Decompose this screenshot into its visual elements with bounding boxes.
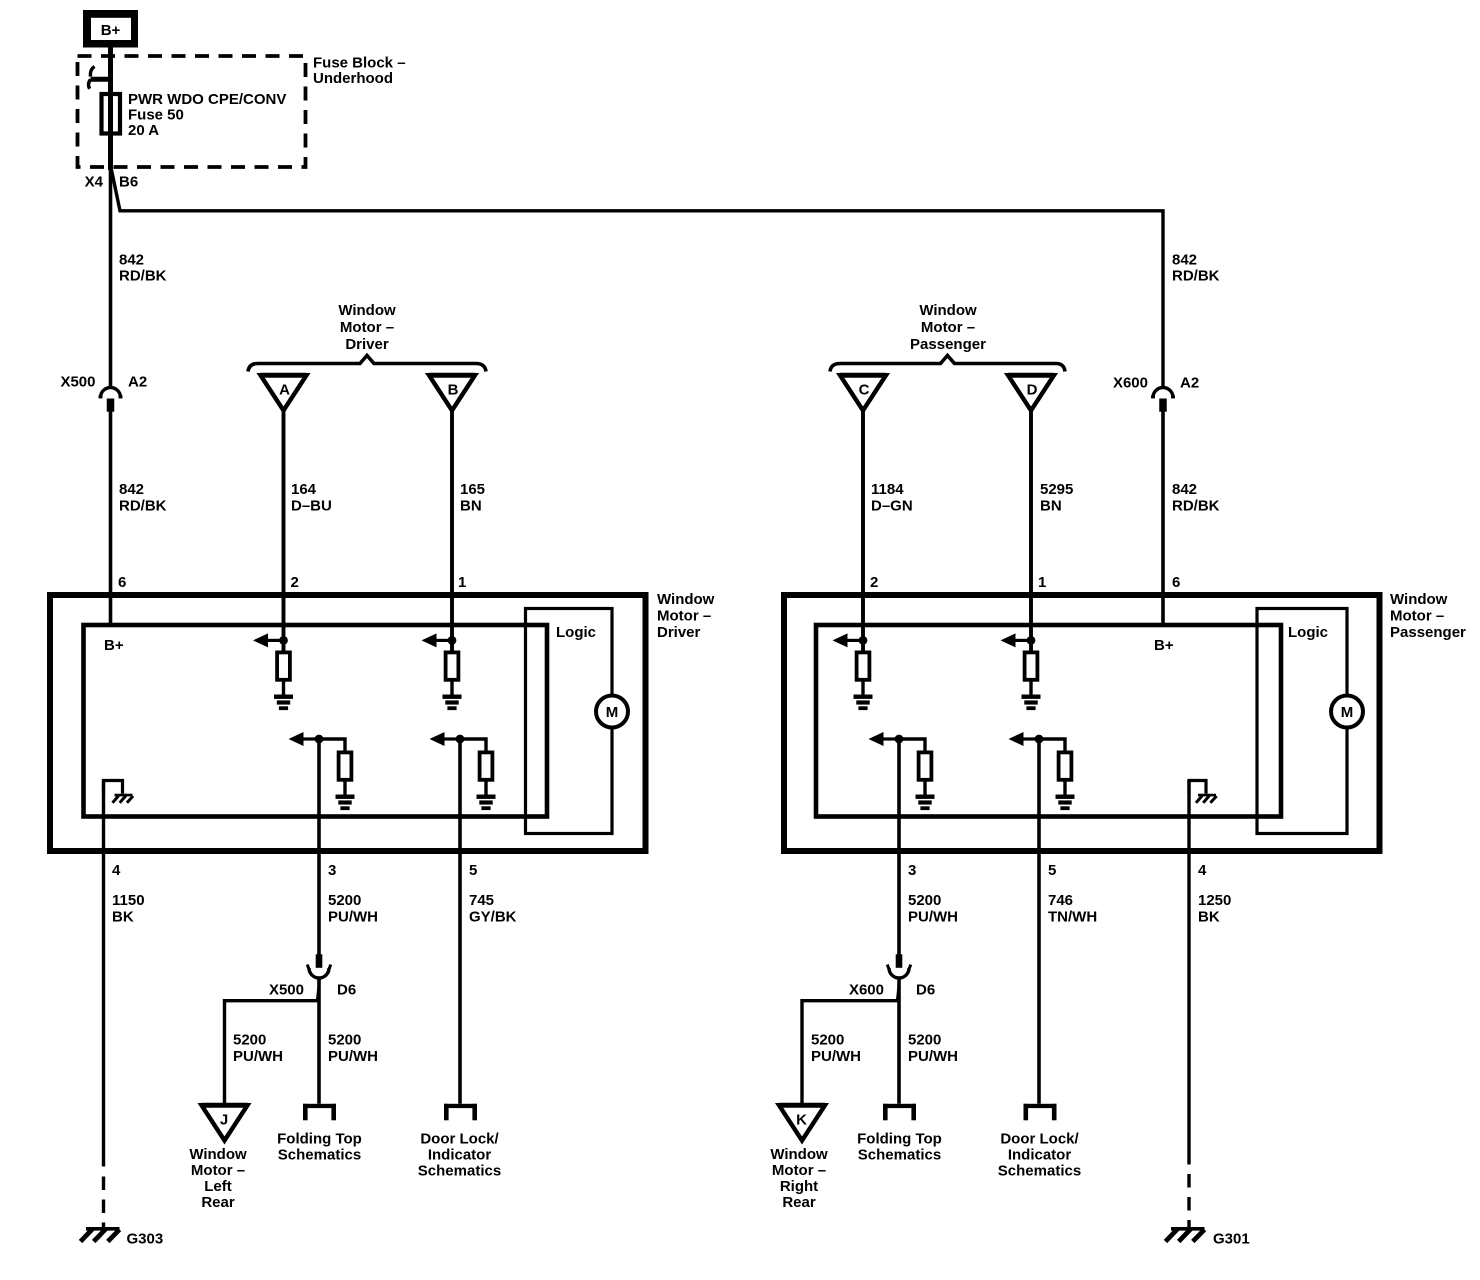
label window motor right rear xyxy=(770,1146,828,1211)
brace passenger xyxy=(830,356,1065,372)
resistor to ground pin 2 passenger xyxy=(833,633,873,710)
svg-text:Passenger: Passenger xyxy=(910,336,986,353)
wire below X500 D6 xyxy=(317,980,321,1104)
svg-text:6: 6 xyxy=(118,574,126,591)
resistor to ground pin 2 driver xyxy=(253,633,293,710)
wire 5200 PU/WH pin 3 driver xyxy=(317,739,321,955)
svg-text:164: 164 xyxy=(291,481,317,498)
svg-text:Window: Window xyxy=(770,1146,828,1163)
svg-text:Schematics: Schematics xyxy=(858,1147,941,1164)
svg-text:5200: 5200 xyxy=(908,1032,941,1049)
resistor to ground pin 3 passenger xyxy=(869,732,935,810)
svg-text:Logic: Logic xyxy=(556,624,596,641)
svg-text:D6: D6 xyxy=(337,982,356,999)
svg-text:3: 3 xyxy=(328,862,336,879)
svg-text:BK: BK xyxy=(1198,909,1220,926)
svg-text:1: 1 xyxy=(458,574,466,591)
triangle connector D xyxy=(1008,375,1054,410)
motor M passenger xyxy=(1331,696,1363,728)
svg-text:GY/BK: GY/BK xyxy=(469,909,517,926)
svg-text:J: J xyxy=(220,1112,228,1129)
triangle connector K xyxy=(779,1105,825,1140)
svg-text:RD/BK: RD/BK xyxy=(119,498,167,515)
fuse block underhood dashed box xyxy=(78,56,306,167)
svg-text:745: 745 xyxy=(469,892,494,909)
logic box passenger xyxy=(1257,609,1347,834)
svg-text:X600: X600 xyxy=(1113,375,1148,392)
svg-text:Motor –: Motor – xyxy=(340,319,394,336)
triangle connector A xyxy=(261,375,307,410)
resistor to ground pin 1 passenger xyxy=(1001,633,1041,710)
svg-text:4: 4 xyxy=(1198,862,1207,879)
branch wire to triangle J xyxy=(225,1001,320,1103)
svg-text:Motor –: Motor – xyxy=(1390,608,1444,625)
svg-text:20 A: 20 A xyxy=(128,122,159,139)
wire 842 RD/BK from B+ through fuse down to X500 xyxy=(108,47,113,170)
bracket door lock driver xyxy=(444,1104,477,1121)
fuse block label xyxy=(313,55,406,88)
svg-text:A2: A2 xyxy=(128,374,147,391)
svg-text:RD/BK: RD/BK xyxy=(1172,498,1220,515)
motor M driver xyxy=(596,696,628,728)
bracket door lock passenger xyxy=(1024,1104,1057,1121)
inner module box driver xyxy=(84,625,548,817)
branch wire to triangle K xyxy=(802,1001,899,1103)
wire below X600 D6 xyxy=(897,980,901,1104)
svg-text:PU/WH: PU/WH xyxy=(908,1048,958,1065)
svg-text:BK: BK xyxy=(112,909,134,926)
svg-text:G301: G301 xyxy=(1213,1231,1250,1248)
svg-text:1: 1 xyxy=(1038,574,1046,591)
svg-text:PU/WH: PU/WH xyxy=(233,1048,283,1065)
svg-text:C: C xyxy=(859,382,870,399)
svg-text:Left: Left xyxy=(204,1178,232,1195)
svg-text:Rear: Rear xyxy=(782,1194,816,1211)
resistor to ground pin 3 driver xyxy=(289,732,355,810)
svg-text:A2: A2 xyxy=(1180,375,1199,392)
svg-text:Driver: Driver xyxy=(345,336,389,353)
wire 842 RD/BK right lower, pin 6 passenger xyxy=(1161,411,1165,625)
wire 165 BN pin 1 driver xyxy=(450,408,454,651)
svg-text:Schematics: Schematics xyxy=(998,1163,1081,1180)
svg-text:B+: B+ xyxy=(1154,637,1174,654)
brace driver xyxy=(248,356,486,372)
window motor driver box label xyxy=(657,591,715,641)
svg-text:A: A xyxy=(279,382,290,399)
svg-text:1150: 1150 xyxy=(112,892,145,909)
svg-text:5200: 5200 xyxy=(908,892,941,909)
wire label 842 RD/BK left upper xyxy=(119,252,167,285)
svg-text:Motor –: Motor – xyxy=(921,319,975,336)
label window motor left rear xyxy=(189,1146,247,1211)
svg-text:B+: B+ xyxy=(104,637,124,654)
svg-text:3: 3 xyxy=(908,862,916,879)
svg-text:B: B xyxy=(448,382,459,399)
svg-text:5200: 5200 xyxy=(811,1032,844,1049)
svg-text:D–GN: D–GN xyxy=(871,498,913,515)
wire label 5200 PU/WH branch J xyxy=(233,1032,283,1066)
svg-text:2: 2 xyxy=(291,574,299,591)
svg-text:1184: 1184 xyxy=(871,481,904,498)
svg-text:PU/WH: PU/WH xyxy=(811,1048,861,1065)
fuse element hook xyxy=(89,67,113,89)
svg-text:5200: 5200 xyxy=(328,892,361,909)
svg-text:746: 746 xyxy=(1048,892,1073,909)
fuse 50 xyxy=(102,94,121,134)
window motor passenger outer box xyxy=(784,595,1380,851)
svg-text:842: 842 xyxy=(1172,252,1197,269)
svg-text:2: 2 xyxy=(870,574,878,591)
wire 5295 BN pin 1 passenger xyxy=(1029,408,1033,651)
svg-text:M: M xyxy=(1341,704,1354,721)
svg-text:842: 842 xyxy=(119,252,144,269)
svg-text:TN/WH: TN/WH xyxy=(1048,909,1097,926)
fuse 50 label xyxy=(128,91,286,139)
svg-text:Motor –: Motor – xyxy=(657,608,711,625)
svg-text:Schematics: Schematics xyxy=(278,1147,361,1164)
svg-text:Window: Window xyxy=(919,302,977,319)
connector X600 A2 xyxy=(1151,388,1175,412)
window motor driver outer box xyxy=(50,595,646,851)
svg-text:G303: G303 xyxy=(127,1231,164,1248)
wire 745 GY/BK pin 5 driver xyxy=(458,739,462,1104)
svg-text:Indicator: Indicator xyxy=(1008,1147,1072,1164)
svg-text:Fuse 50: Fuse 50 xyxy=(128,107,184,124)
svg-text:Folding Top: Folding Top xyxy=(277,1131,362,1148)
svg-text:D: D xyxy=(1027,382,1038,399)
svg-text:RD/BK: RD/BK xyxy=(1172,268,1220,285)
wire 842 RD/BK left lower, pin 6 driver xyxy=(109,411,113,625)
triangle connector C xyxy=(840,375,886,410)
svg-text:Indicator: Indicator xyxy=(428,1147,492,1164)
header label Window Motor Passenger xyxy=(910,302,986,353)
svg-text:5200: 5200 xyxy=(328,1032,361,1049)
svg-text:Motor –: Motor – xyxy=(772,1162,826,1179)
svg-text:PWR WDO CPE/CONV: PWR WDO CPE/CONV xyxy=(128,91,286,108)
ground hookup pin 4 driver xyxy=(104,781,123,795)
wire 164 D-BU pin 2 driver xyxy=(282,408,286,651)
ground G301 xyxy=(1166,1229,1205,1242)
ground hookup pin 4 passenger xyxy=(1189,781,1206,795)
wire 5200 PU/WH pin 3 passenger xyxy=(897,739,901,955)
svg-text:4: 4 xyxy=(112,862,121,879)
svg-text:PU/WH: PU/WH xyxy=(328,1048,378,1065)
svg-text:5295: 5295 xyxy=(1040,481,1073,498)
svg-text:B+: B+ xyxy=(101,22,121,39)
wire 1150 BK pin 4 driver xyxy=(102,781,105,1167)
svg-text:Right: Right xyxy=(780,1178,818,1195)
svg-text:Window: Window xyxy=(338,302,396,319)
logic box driver xyxy=(526,609,613,834)
svg-text:PU/WH: PU/WH xyxy=(908,909,958,926)
wire label 5200 PU/WH branch K xyxy=(811,1032,861,1066)
wire label 5200 PU/WH branch folding top xyxy=(328,1032,378,1066)
connector X4 / B6 labels xyxy=(85,174,139,191)
svg-text:Door Lock/: Door Lock/ xyxy=(420,1131,499,1148)
battery positive terminal B+ xyxy=(83,10,138,48)
svg-text:5: 5 xyxy=(1048,862,1056,879)
svg-text:BN: BN xyxy=(460,498,482,515)
svg-text:5: 5 xyxy=(469,862,477,879)
svg-text:D–BU: D–BU xyxy=(291,498,332,515)
svg-text:Passenger: Passenger xyxy=(1390,624,1466,641)
svg-text:6: 6 xyxy=(1172,574,1180,591)
resistor to ground pin 5 driver xyxy=(430,732,496,810)
svg-text:Door Lock/: Door Lock/ xyxy=(1000,1131,1079,1148)
svg-text:RD/BK: RD/BK xyxy=(119,268,167,285)
svg-text:1250: 1250 xyxy=(1198,892,1231,909)
svg-text:X500: X500 xyxy=(269,982,304,999)
bracket folding top passenger xyxy=(883,1104,916,1121)
window motor passenger box label xyxy=(1390,591,1466,641)
svg-text:Schematics: Schematics xyxy=(418,1163,501,1180)
svg-text:PU/WH: PU/WH xyxy=(328,909,378,926)
svg-text:Folding Top: Folding Top xyxy=(857,1131,942,1148)
svg-text:Rear: Rear xyxy=(201,1194,235,1211)
resistor to ground pin 1 driver xyxy=(422,633,462,710)
svg-text:X4: X4 xyxy=(85,174,104,191)
svg-text:Fuse Block –: Fuse Block – xyxy=(313,55,406,72)
connector X500 D6 xyxy=(307,954,331,978)
wire label 842 RD/BK right upper xyxy=(1172,252,1220,285)
svg-text:Underhood: Underhood xyxy=(313,70,393,87)
wire 746 TN/WH pin 5 passenger xyxy=(1037,739,1041,1104)
dashed wire to G303 xyxy=(102,1177,105,1228)
svg-text:Driver: Driver xyxy=(657,624,701,641)
svg-text:165: 165 xyxy=(460,481,485,498)
svg-text:K: K xyxy=(796,1112,807,1129)
svg-text:X500: X500 xyxy=(60,374,95,391)
wire branch from B6 to passenger side xyxy=(111,169,1163,387)
svg-text:Window: Window xyxy=(1390,591,1448,608)
svg-text:X600: X600 xyxy=(849,982,884,999)
header label Window Motor Driver xyxy=(338,302,396,353)
svg-text:Window: Window xyxy=(189,1146,247,1163)
svg-text:Logic: Logic xyxy=(1288,624,1328,641)
svg-text:842: 842 xyxy=(119,481,144,498)
wire label 5200 PU/WH branch folding top passenger xyxy=(908,1032,958,1066)
svg-text:D6: D6 xyxy=(916,982,935,999)
wire 1184 D-GN pin 2 passenger xyxy=(861,408,865,651)
svg-text:842: 842 xyxy=(1172,481,1197,498)
ground G303 xyxy=(81,1229,120,1242)
svg-text:M: M xyxy=(606,704,619,721)
svg-text:Motor –: Motor – xyxy=(191,1162,245,1179)
wire 1250 BK pin 4 passenger xyxy=(1187,781,1190,1165)
connector X500 A2 xyxy=(99,388,123,412)
triangle connector B xyxy=(429,375,475,410)
svg-text:Window: Window xyxy=(657,591,715,608)
svg-text:BN: BN xyxy=(1040,498,1062,515)
resistor to ground pin 5 passenger xyxy=(1009,732,1075,810)
svg-text:B6: B6 xyxy=(119,174,138,191)
triangle connector J xyxy=(202,1105,248,1140)
inner module box passenger xyxy=(816,625,1281,817)
svg-text:5200: 5200 xyxy=(233,1032,266,1049)
bracket folding top driver xyxy=(303,1104,336,1121)
connector X600 D6 xyxy=(887,954,911,978)
dashed wire to G301 xyxy=(1187,1174,1190,1227)
